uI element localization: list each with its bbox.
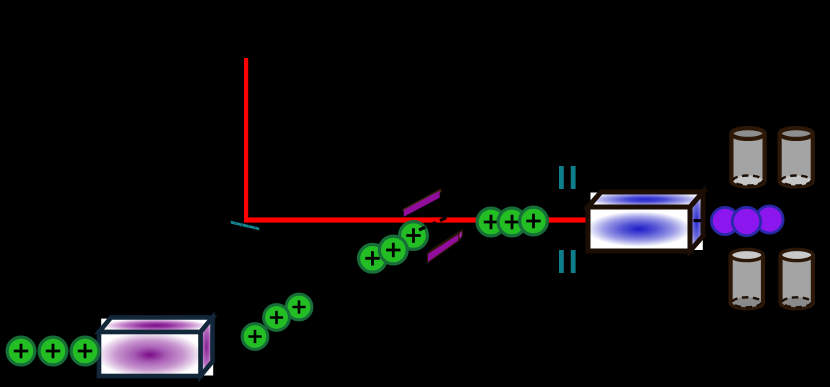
aperture slit pair bottom xyxy=(559,250,576,273)
neutralized ion right (violet) xyxy=(756,206,783,233)
detector box corner white backing top-left xyxy=(591,193,602,206)
dashed ion trajectory across beam xyxy=(419,214,455,230)
collector cylinder top-right xyxy=(780,128,813,186)
detector box right face xyxy=(690,192,703,251)
ion group 1: ion 1a xyxy=(7,337,35,365)
neutralized ion left (violet) xyxy=(711,207,738,234)
ion group 2: ion 2a xyxy=(242,324,268,350)
target box (magenta plasma source): top face xyxy=(99,318,213,333)
ion group 3: ion 3a xyxy=(359,244,387,272)
collector cylinder bottom-right xyxy=(781,249,813,308)
ion group 3: ion 3c xyxy=(400,222,428,250)
deflection plate lower (magenta slab): top face xyxy=(427,230,462,254)
target box front face xyxy=(99,332,201,376)
ion group 4: ion 4c xyxy=(520,207,548,235)
dashed trajectory exit mark on box right face xyxy=(694,219,702,222)
neutralized ion middle (violet, on top) xyxy=(732,207,760,235)
deflection plate lower: end face xyxy=(459,230,462,241)
detector box front face xyxy=(588,207,690,251)
target box corner white backing bottom-right xyxy=(201,363,213,376)
target box corner white backing top-left xyxy=(101,319,113,332)
ion group 4: ion 4b xyxy=(498,208,526,236)
ion group 1: ion 1b xyxy=(39,337,67,365)
ion group 1: ion 1c xyxy=(71,337,99,365)
deflection plate lower: front face xyxy=(427,233,459,263)
laser beam vertical segment xyxy=(244,58,248,218)
grating / pulse compressor (teal slanted bar) xyxy=(231,221,260,231)
deflection plate upper (magenta) xyxy=(402,189,442,217)
collector cylinder bottom-left xyxy=(731,249,763,308)
collector cylinder top-left xyxy=(731,128,764,186)
laser beam horizontal segment xyxy=(244,217,588,222)
target box right face xyxy=(201,318,213,377)
aperture slit pair top xyxy=(559,166,576,189)
ion group 2: ion 2c xyxy=(286,294,312,320)
ion group 2: ion 2b (on top) xyxy=(264,305,290,331)
ion group 3: ion 3b (on top) xyxy=(379,236,407,264)
detector box corner white backing bottom-right xyxy=(691,239,703,251)
ion group 4: ion 4a xyxy=(477,208,505,236)
detector box (blue): top face xyxy=(588,192,703,207)
